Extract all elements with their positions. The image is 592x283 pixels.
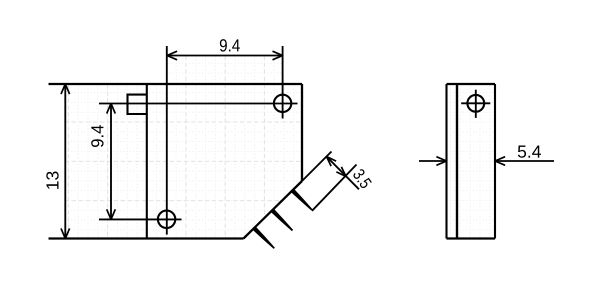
hole top-right: [274, 95, 291, 112]
hole bottom-left vertical centerline / extension: [166, 46, 168, 235]
dim 13 arrow down: [61, 228, 70, 238]
step edge: [146, 84, 148, 239]
dim 5.4 right line: [495, 160, 554, 162]
dim 9.4 top text: [220, 39, 240, 51]
dim 9.4 vertical arrow down: [107, 209, 116, 219]
dim 5.4 left line: [419, 160, 447, 162]
side top edge: [447, 83, 496, 85]
dim 9.4 vertical text: [91, 125, 103, 147]
body top edge: [49, 83, 303, 85]
centerline bottom hole: [99, 218, 182, 220]
pin 2: [271, 209, 293, 231]
side left edge: [445, 84, 447, 239]
dim 5.4 left arrow: [436, 157, 446, 166]
body bottom edge: [49, 237, 244, 239]
side right edge: [494, 84, 496, 239]
hole bottom-left: [158, 211, 175, 228]
pin 1: [291, 189, 313, 211]
diag dim line: [327, 157, 360, 190]
sketch grid front view: [65, 84, 302, 239]
dim 9.4 vertical line: [110, 104, 112, 220]
dim 9.4 top arrow right: [273, 51, 283, 60]
body right edge: [301, 84, 303, 181]
dim 5.4 right arrow: [495, 157, 505, 166]
chamfer edge: [244, 181, 303, 239]
notch: [128, 95, 147, 114]
grid major lines: [65, 56, 302, 238]
dim 13 arrow up: [61, 84, 70, 94]
dim 13 line: [64, 84, 66, 239]
diag extension from pin tip: [312, 165, 357, 211]
sketch grid upper band: [167, 56, 283, 84]
pin 3: [253, 227, 275, 249]
sketch grid side view: [447, 84, 495, 238]
diag extension from chamfer corner: [302, 152, 332, 182]
side bottom edge: [447, 237, 496, 239]
side hole horizontal centerline: [461, 102, 490, 104]
side hole: [467, 95, 484, 112]
diag dim text 3.5: [352, 168, 372, 189]
dim 9.4 top arrow left: [167, 51, 177, 60]
dim 9.4 vertical arrow up: [107, 104, 116, 114]
side step line: [456, 84, 458, 239]
dim 9.4 top line: [167, 55, 283, 57]
hole top-right vertical centerline / extension: [282, 46, 284, 119]
diag dim arrow SE: [336, 167, 346, 177]
diag dim arrow NW: [327, 157, 337, 167]
dim 5.4 text: [518, 146, 541, 158]
dim 13 text: [46, 172, 58, 189]
side hole vertical centerline: [475, 90, 477, 118]
centerline top hole: [99, 103, 298, 105]
